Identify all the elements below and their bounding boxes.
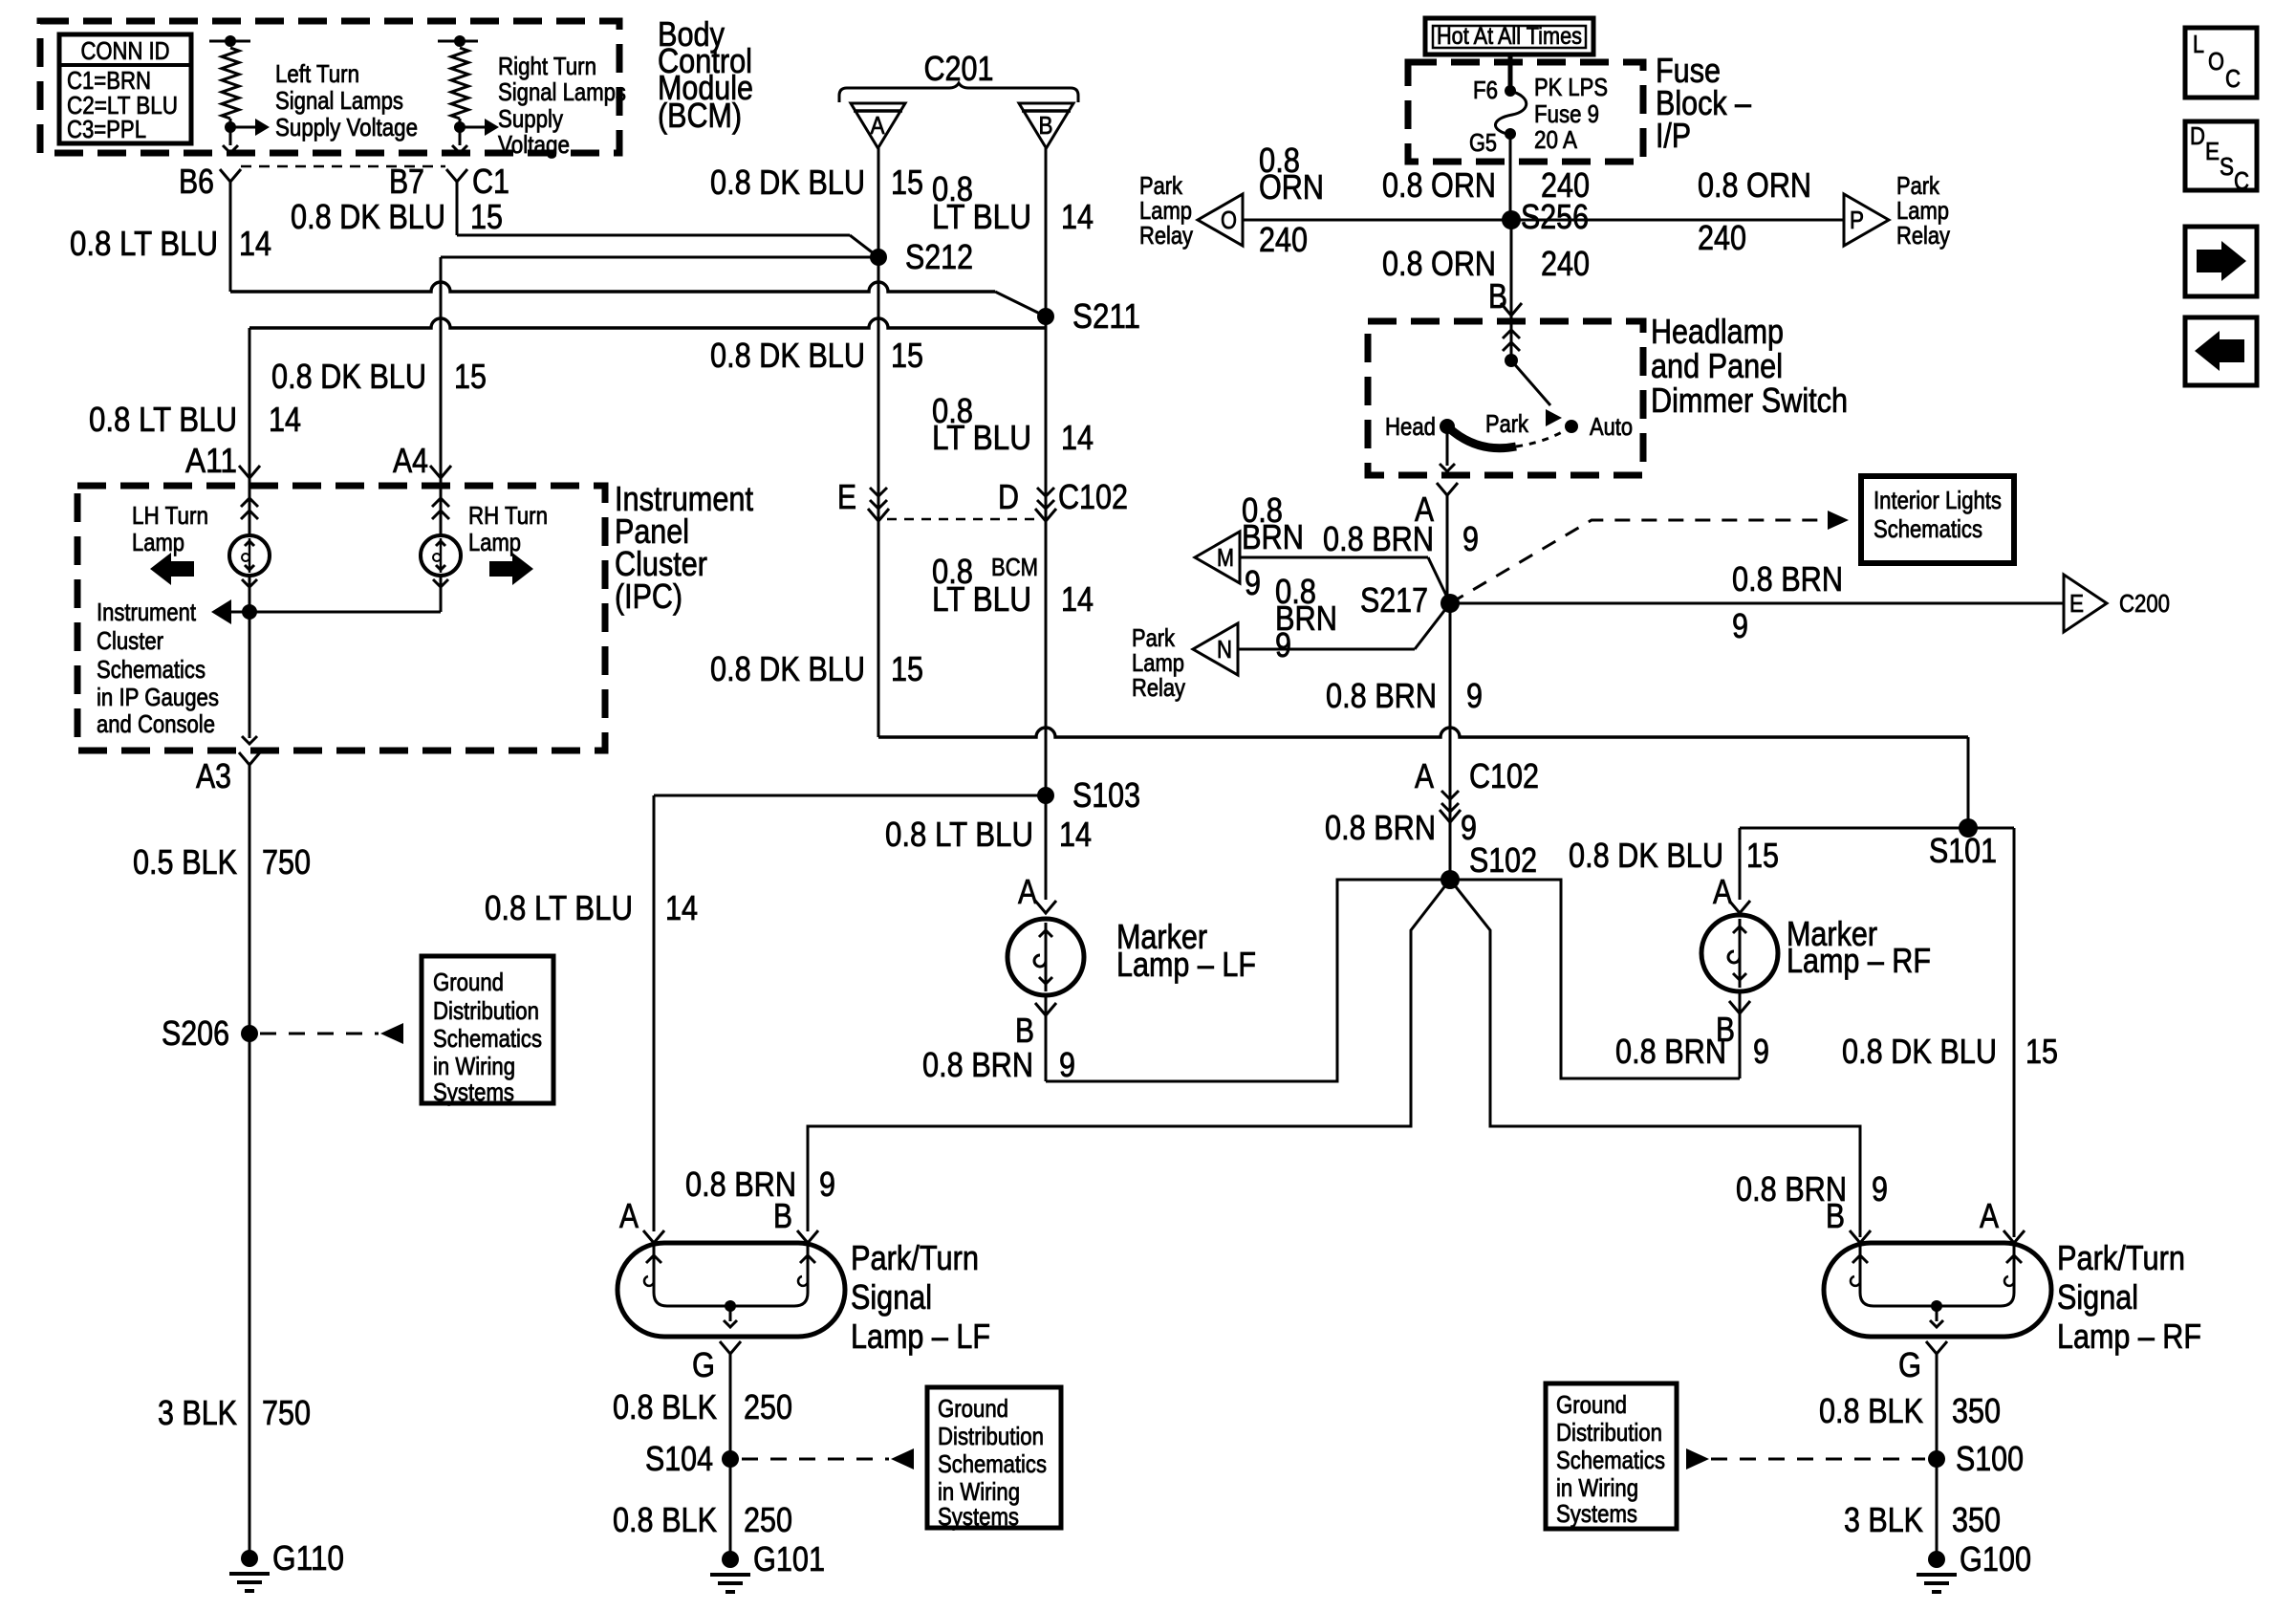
svg-text:9: 9 (1275, 625, 1291, 664)
wire: C201-B down to S211, 0.8 LT BLU 14 (1045, 148, 1048, 316)
svg-text:9: 9 (1059, 1045, 1075, 1084)
wire: S217 to N, 0.8 BRN 9 (1238, 648, 1415, 651)
dashed reference link from S104 to ground distribution note (742, 1458, 889, 1461)
svg-text:Interior Lights: Interior Lights (1874, 486, 2002, 514)
connector C201 terminal A (triangle) (851, 103, 905, 148)
svg-text:S101: S101 (1929, 831, 1997, 870)
svg-text:0.8 DK BLU: 0.8 DK BLU (1569, 836, 1723, 875)
svg-text:Relay: Relay (1132, 673, 1185, 702)
svg-text:240: 240 (1259, 220, 1308, 259)
svg-text:350: 350 (1952, 1391, 2001, 1430)
svg-text:O: O (1221, 206, 1237, 234)
svg-text:D: D (2190, 121, 2205, 150)
arrow: left turn supply wire exits BCM downward (223, 145, 238, 153)
icon box: next arrow (2185, 227, 2257, 296)
svg-text:G: G (692, 1345, 715, 1384)
svg-text:G: G (1898, 1345, 1921, 1384)
ground G110 (241, 1550, 258, 1567)
splice S217 (1440, 594, 1460, 613)
connector triangle E / C200 (2064, 575, 2107, 632)
svg-text:S217: S217 (1360, 580, 1428, 620)
wire: S212 down to C102-E, 0.8 DK BLU 15 (877, 257, 880, 484)
svg-text:(IPC): (IPC) (615, 577, 682, 616)
wire: S256 left to park lamp relay O, 0.8 ORN 240 (1243, 219, 1511, 222)
svg-text:Distribution: Distribution (433, 996, 539, 1025)
arrow: right turn supply wire exits BCM downward (452, 145, 467, 153)
resistor: left turn signal lamps supply (inside BCM) (209, 40, 250, 43)
svg-text:14: 14 (239, 224, 271, 263)
svg-text:240: 240 (1541, 244, 1590, 283)
svg-text:0.5 BLK: 0.5 BLK (133, 842, 237, 882)
svg-text:G101: G101 (753, 1539, 825, 1578)
splice S102 (1440, 870, 1460, 889)
svg-text:14: 14 (1061, 579, 1094, 619)
svg-text:S206: S206 (162, 1013, 229, 1053)
dashed reference wire from S217 to interior lights schematics (1450, 520, 1826, 603)
svg-text:Lamp: Lamp (132, 528, 184, 556)
svg-text:A11: A11 (185, 441, 237, 480)
splice S211 (1037, 308, 1054, 325)
wire: S212 left to A4 of IPC (0.8 DK BLU 15) (441, 256, 878, 259)
svg-text:240: 240 (1698, 218, 1746, 257)
svg-text:0.8 DK BLU: 0.8 DK BLU (710, 649, 865, 688)
wire: S256 right to park lamp relay P, 0.8 ORN 240 (1511, 219, 1844, 222)
wire: S101 down to RF marker A, 0.8 DK BLU 15 (1739, 828, 1742, 900)
svg-text:15: 15 (454, 357, 487, 396)
svg-text:0.8 BRN: 0.8 BRN (1615, 1032, 1726, 1071)
svg-text:S212: S212 (905, 237, 973, 276)
wire: switch output A down to S217, 0.8 BRN 9 (1446, 495, 1449, 603)
svg-text:BCM: BCM (991, 553, 1038, 581)
svg-text:A: A (871, 111, 886, 140)
icon box: previous arrow (2185, 317, 2257, 385)
wire: C102-A down to S102, 0.8 BRN 9 (1449, 822, 1452, 880)
connector C201 terminal B (triangle) (1019, 103, 1073, 148)
svg-text:Instrument: Instrument (97, 598, 197, 626)
svg-text:D: D (998, 477, 1019, 516)
wire: C201-A down to S212, 0.8 DK BLU 15 (877, 148, 880, 257)
svg-text:0.8 LT BLU: 0.8 LT BLU (89, 400, 237, 439)
reference box: Interior Lights Schematics (1861, 476, 2014, 563)
power label box: Hot At All Times (1425, 18, 1593, 54)
svg-text:Supply: Supply (498, 104, 563, 133)
svg-text:and Console: and Console (97, 709, 215, 738)
svg-text:20 A: 20 A (1534, 125, 1578, 154)
pin B of LF park/turn lamp (797, 1230, 818, 1243)
fuse: PK LPS Fuse 9 20 A (1505, 85, 1516, 97)
svg-text:G110: G110 (272, 1538, 344, 1578)
svg-text:14: 14 (1059, 815, 1092, 854)
svg-text:0.8 DK BLU: 0.8 DK BLU (710, 163, 865, 202)
dashed travel arc to Auto (1516, 426, 1571, 446)
svg-text:LT BLU: LT BLU (932, 418, 1031, 457)
svg-text:Schematics: Schematics (433, 1024, 542, 1053)
reference box: Ground Distribution Schematics in Wiring Systems (right) (1546, 1383, 1677, 1529)
component box: Fuse Block - I/P, dashed outline (1408, 62, 1643, 162)
svg-text:15: 15 (2025, 1032, 2058, 1071)
wire: S101 right branch down to RF park/turn A, 0.8 DK BLU 15 (2013, 828, 2016, 1237)
svg-text:A3: A3 (196, 756, 231, 795)
svg-text:S103: S103 (1072, 775, 1140, 815)
svg-text:0.8 ORN: 0.8 ORN (1382, 165, 1496, 205)
wire: C1 0.8 DK BLU 15 down and right to S212 (456, 182, 459, 235)
svg-text:Systems: Systems (433, 1078, 514, 1106)
wire: long horizontal run from E-column to S101 riser with hops (878, 728, 1968, 737)
arrow: RH turn direction (thick right arrow) (489, 553, 533, 585)
svg-text:0.8 LT BLU: 0.8 LT BLU (485, 888, 633, 927)
pin B7 / C1 of BCM connector (446, 169, 467, 182)
svg-text:Ground: Ground (1556, 1390, 1627, 1419)
svg-text:Lamp: Lamp (468, 528, 521, 556)
wire: 0.5 BLK 750 from A3 down to S206 (249, 765, 251, 1034)
svg-text:C102: C102 (1058, 477, 1128, 516)
svg-text:Supply Voltage: Supply Voltage (275, 113, 418, 142)
component box: Body Control Module (BCM), dashed outline (40, 21, 619, 153)
svg-text:0.8 BRN: 0.8 BRN (685, 1165, 796, 1204)
svg-text:A: A (1018, 872, 1037, 911)
svg-text:Dimmer Switch: Dimmer Switch (1651, 381, 1848, 420)
svg-text:Relay: Relay (1896, 221, 1950, 250)
svg-text:14: 14 (269, 400, 301, 439)
svg-text:0.8 LT BLU: 0.8 LT BLU (885, 815, 1033, 854)
wire: S103 down to LF marker lamp terminal A, 0.8 LT BLU 14 (1045, 795, 1048, 900)
switch arm: pointer from common to Auto position (1511, 360, 1550, 405)
svg-text:A: A (1713, 872, 1732, 911)
svg-text:0.8 ORN: 0.8 ORN (1698, 165, 1811, 205)
svg-text:S256: S256 (1521, 197, 1589, 236)
icon box: DESC (2185, 121, 2257, 190)
svg-text:15: 15 (1746, 836, 1779, 875)
svg-text:0.8 DK BLU: 0.8 DK BLU (291, 197, 445, 236)
svg-text:CONN ID: CONN ID (81, 36, 170, 65)
wire: S102 left to LF marker lamp B (1046, 880, 1450, 1081)
connector triangle P to Park Lamp Relay (right) (1844, 194, 1889, 246)
svg-text:C102: C102 (1469, 756, 1539, 795)
svg-text:F6: F6 (1473, 76, 1498, 104)
svg-text:0.8 LT BLU: 0.8 LT BLU (70, 224, 218, 263)
svg-text:0.8 BRN: 0.8 BRN (1736, 1169, 1847, 1208)
svg-text:O: O (2208, 47, 2224, 76)
svg-text:LT BLU: LT BLU (932, 197, 1031, 236)
svg-text:0.8 BRN: 0.8 BRN (1323, 519, 1434, 558)
svg-text:250: 250 (744, 1500, 792, 1539)
svg-text:15: 15 (470, 197, 503, 236)
svg-text:Headlamp: Headlamp (1651, 312, 1784, 351)
reference box: Ground Distribution Schematics in Wiring Systems (left) (422, 956, 553, 1103)
svg-text:Signal Lamps: Signal Lamps (275, 86, 403, 115)
svg-text:0.8 BLK: 0.8 BLK (613, 1387, 717, 1426)
svg-text:15: 15 (891, 649, 923, 688)
splice S100 (1928, 1450, 1945, 1468)
switch: headlamp/park/auto dimmer, common feed (1510, 321, 1513, 360)
wire: IPC return down to A3 (249, 612, 251, 738)
wire: fuse output G5 down to S256, 0.8 ORN 240 (1509, 134, 1512, 220)
wire: turn lamps common return inside IPC (249, 611, 441, 614)
svg-text:750: 750 (262, 1393, 311, 1432)
dashed reference link from ground distribution note to S100 (1711, 1458, 1925, 1461)
svg-text:S102: S102 (1469, 840, 1537, 880)
svg-text:9: 9 (1462, 519, 1479, 558)
svg-text:0.8 BRN: 0.8 BRN (1732, 559, 1843, 599)
svg-text:0.8 BLK: 0.8 BLK (1819, 1391, 1923, 1430)
wire: S103 left branch to LF park/turn lamp terminal A (654, 795, 1046, 797)
svg-text:Signal Lamps: Signal Lamps (498, 77, 626, 106)
ground G100 (1928, 1551, 1945, 1568)
svg-text:I/P: I/P (1656, 116, 1691, 155)
wire: RF lamp G down to S100, 0.8 BLK 350 (1936, 1354, 1939, 1459)
svg-text:M: M (1217, 543, 1234, 572)
svg-text:A: A (1980, 1196, 1999, 1235)
svg-text:14: 14 (1061, 197, 1094, 236)
svg-text:C: C (2234, 166, 2249, 195)
arrow: right turn supply output to right (461, 126, 487, 129)
svg-text:and Panel: and Panel (1651, 346, 1783, 385)
svg-text:Head: Head (1385, 412, 1436, 441)
svg-text:350: 350 (1952, 1500, 2001, 1539)
icon box: LOC (2185, 28, 2257, 98)
splice S256 (1502, 210, 1521, 229)
svg-text:Hot At All Times: Hot At All Times (1437, 23, 1582, 50)
svg-text:C1: C1 (472, 162, 509, 201)
wire: S217 down to C102-A, 0.8 BRN 9 (1449, 603, 1452, 794)
dashed reference link from S206 to ground distribution note (260, 1033, 379, 1035)
svg-text:Schematics: Schematics (1556, 1446, 1665, 1474)
svg-text:0.8 ORN: 0.8 ORN (1382, 244, 1496, 283)
svg-text:Relay: Relay (1139, 221, 1193, 250)
pin A of LF park/turn lamp (643, 1230, 664, 1243)
splice S206 (241, 1025, 258, 1042)
component box: Headlamp and Panel Dimmer Switch, dashed outline (1368, 321, 1643, 475)
wire: C102-D down to S103, 0.8 LT BLU 14 (1045, 521, 1048, 795)
svg-text:B: B (1716, 1010, 1735, 1049)
svg-text:Ground: Ground (433, 968, 504, 996)
svg-text:0.8 DK BLU: 0.8 DK BLU (1842, 1032, 1997, 1071)
svg-text:750: 750 (262, 842, 311, 882)
svg-text:in Wiring: in Wiring (433, 1052, 515, 1080)
svg-text:C200: C200 (2119, 589, 2170, 618)
connector triangle M to BCM (1195, 532, 1240, 583)
svg-text:14: 14 (665, 888, 698, 927)
svg-text:0.8 DK BLU: 0.8 DK BLU (271, 357, 426, 396)
svg-text:B6: B6 (179, 162, 214, 201)
svg-text:250: 250 (744, 1387, 792, 1426)
wire: S217 right to C200-E, 0.8 BRN 9 (1450, 602, 2064, 605)
pin G of park/turn lamp RF (1926, 1341, 1947, 1354)
svg-text:S104: S104 (645, 1439, 713, 1478)
svg-text:Ground: Ground (938, 1394, 1008, 1423)
pin A of RF park/turn lamp (2004, 1230, 2025, 1243)
splice S104 (722, 1450, 739, 1468)
svg-text:Schematics: Schematics (1874, 514, 1982, 543)
arrow: LH turn direction (thick left arrow) (150, 553, 194, 585)
wire: B6 0.8 LT BLU 14 down and right to S211 (229, 182, 232, 292)
lamp: LH turn indicator in IPC (249, 478, 251, 535)
pin G of park/turn lamp LF (720, 1341, 741, 1354)
wire: S211 down to C102-D, 0.8 LT BLU 14 (1045, 316, 1048, 484)
svg-text:0.8 BRN: 0.8 BRN (922, 1045, 1033, 1084)
svg-text:in IP Gauges: in IP Gauges (97, 683, 219, 711)
svg-text:9: 9 (819, 1165, 835, 1204)
svg-text:S: S (2220, 152, 2234, 181)
svg-text:Signal: Signal (851, 1277, 932, 1317)
component box: Instrument Panel Cluster (IPC), dashed outline (77, 486, 605, 751)
svg-text:G100: G100 (1960, 1539, 2031, 1578)
svg-text:Cluster: Cluster (97, 626, 163, 655)
svg-text:Lamp – RF: Lamp – RF (2057, 1317, 2201, 1356)
pin A3 of IPC (239, 752, 260, 765)
svg-text:E: E (2069, 589, 2084, 618)
svg-text:Left Turn: Left Turn (275, 59, 359, 88)
svg-text:B: B (1039, 111, 1053, 140)
svg-text:BRN: BRN (1242, 517, 1304, 556)
splice S103 (1037, 787, 1054, 804)
svg-text:Voltage: Voltage (498, 130, 570, 159)
arrow: left turn supply output to right (231, 126, 257, 129)
reference box: Ground Distribution Schematics in Wiring Systems (center) (927, 1387, 1061, 1528)
wire: LF lamp G down to S104, 0.8 BLK 250 (729, 1354, 732, 1459)
wire: C102-E down, 0.8 DK BLU 15, turns right toward S101 (877, 521, 880, 737)
svg-text:9: 9 (1245, 563, 1261, 602)
svg-text:Fuse 9: Fuse 9 (1534, 99, 1599, 128)
svg-text:LH Turn: LH Turn (132, 501, 208, 530)
CONN ID legend table (59, 34, 191, 143)
switch position Auto (1565, 420, 1578, 433)
svg-text:Lamp – RF: Lamp – RF (1787, 941, 1931, 980)
svg-text:0.8 BLK: 0.8 BLK (613, 1500, 717, 1539)
wire: S102 diagonal right branch to RF park/turn B (1450, 880, 1860, 1237)
svg-text:L: L (2193, 30, 2204, 58)
splice S212 (870, 249, 887, 266)
svg-text:0.8 BRN: 0.8 BRN (1326, 676, 1437, 715)
svg-text:in Wiring: in Wiring (1556, 1473, 1638, 1502)
svg-text:Schematics: Schematics (938, 1449, 1047, 1478)
svg-text:3 BLK: 3 BLK (1844, 1500, 1923, 1539)
ground G101 (722, 1551, 739, 1568)
wire: switch output down from Head position (1446, 426, 1449, 466)
pin B6 of BCM connector (220, 169, 241, 182)
svg-text:A: A (1415, 756, 1434, 795)
svg-text:Lamp – LF: Lamp – LF (1116, 945, 1256, 984)
switch wiper: thick arc from Head toward Park (1447, 426, 1516, 448)
svg-text:Park/Turn: Park/Turn (851, 1238, 979, 1277)
svg-text:14: 14 (1061, 418, 1094, 457)
svg-text:A: A (619, 1196, 639, 1235)
svg-text:Auto: Auto (1590, 412, 1633, 441)
svg-text:9: 9 (1872, 1169, 1888, 1208)
wire: S102 diagonal left branch to LF park/turn B (808, 880, 1450, 1231)
connector triangle N to Park Lamp Relay (1193, 623, 1238, 675)
svg-text:C: C (2225, 64, 2241, 93)
wire: S102 right to RF marker lamp B (1450, 880, 1740, 1078)
svg-text:Right Turn: Right Turn (498, 52, 596, 80)
pin B of RF park/turn lamp (1850, 1230, 1871, 1243)
svg-text:ORN: ORN (1259, 167, 1324, 207)
arrow: reference to instrument cluster schematics (211, 599, 231, 624)
wire: 3 BLK 750 from S206 down to G110 (249, 1034, 251, 1558)
wire: battery feed into fuse F6 (1508, 54, 1513, 90)
svg-text:Lamp – LF: Lamp – LF (851, 1317, 990, 1356)
svg-text:9: 9 (1466, 676, 1483, 715)
connector triangle O to Park Lamp Relay (left) (1198, 194, 1243, 246)
svg-text:Signal: Signal (2057, 1277, 2138, 1317)
svg-text:G5: G5 (1469, 128, 1497, 157)
resistor: right turn signal lamps supply (inside BCM) (438, 40, 478, 43)
lamp: Park/Turn Signal Lamp - LF (dual filament) (617, 1243, 845, 1337)
wire: S256 down to headlamp switch B, 0.8 ORN 240 (1510, 220, 1513, 321)
svg-text:0.8 DK BLU: 0.8 DK BLU (710, 336, 865, 375)
svg-text:C3=PPL: C3=PPL (67, 115, 146, 143)
lamp: RH turn indicator in IPC (440, 478, 443, 535)
svg-text:E: E (837, 477, 856, 516)
splice S101 (1740, 827, 2014, 830)
svg-text:(BCM): (BCM) (658, 96, 742, 135)
svg-text:P: P (1850, 206, 1864, 234)
svg-text:Systems: Systems (938, 1502, 1019, 1531)
svg-text:Park: Park (1485, 409, 1529, 438)
wire: S100 down to G100, 3 BLK 350 (1936, 1459, 1939, 1559)
svg-text:Systems: Systems (1556, 1499, 1637, 1528)
svg-text:N: N (1217, 635, 1232, 664)
wire: S104 down to G101, 0.8 BLK 250 (729, 1459, 732, 1559)
wire: S211 left to A11 of IPC (0.8 LT BLU 14) (249, 318, 1046, 328)
wire: S217 to M, 0.8 BRN 9 (1240, 556, 1428, 559)
svg-text:9: 9 (1732, 606, 1748, 645)
svg-text:E: E (2205, 137, 2220, 165)
svg-text:Distribution: Distribution (1556, 1418, 1662, 1447)
connector line under BCM (pins B6 B7 C1) (241, 165, 445, 168)
svg-text:B: B (1015, 1011, 1034, 1050)
svg-text:15: 15 (891, 336, 923, 375)
svg-text:S211: S211 (1072, 296, 1140, 336)
svg-text:0.8 BRN: 0.8 BRN (1325, 808, 1436, 847)
svg-text:RH Turn: RH Turn (468, 501, 548, 530)
svg-text:3 BLK: 3 BLK (158, 1393, 237, 1432)
svg-text:15: 15 (891, 163, 923, 202)
lamp: Park/Turn Signal Lamp - RF (dual filament) (1824, 1243, 2051, 1337)
svg-text:B7: B7 (389, 162, 424, 201)
svg-text:9: 9 (1753, 1032, 1769, 1071)
svg-text:LT BLU: LT BLU (932, 579, 1031, 619)
svg-text:Distribution: Distribution (938, 1422, 1044, 1450)
svg-text:Schematics: Schematics (97, 655, 206, 684)
svg-text:Park/Turn: Park/Turn (2057, 1238, 2185, 1277)
svg-text:PK LPS: PK LPS (1534, 73, 1608, 101)
svg-text:A4: A4 (393, 441, 428, 480)
svg-text:S100: S100 (1956, 1439, 2024, 1478)
